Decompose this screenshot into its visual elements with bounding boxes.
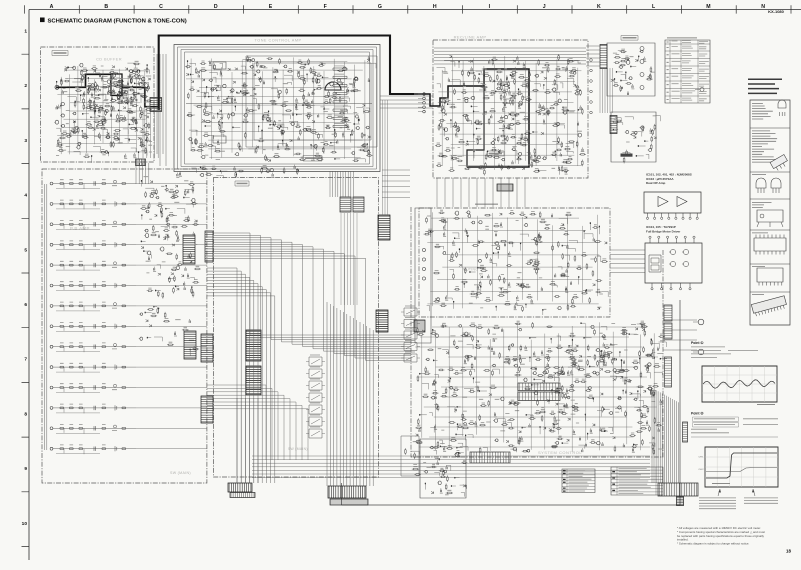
- parts usage table: [665, 40, 710, 103]
- CD buffer component cluster: [57, 63, 151, 157]
- svg-text:Full Bridge Motor Driver: Full Bridge Motor Driver: [646, 229, 681, 233]
- rec/line inner label box: [487, 151, 504, 156]
- rec select label box: [621, 154, 633, 157]
- svg-text:* Schematic diagram is subjec: * Schematic diagram is subject to change…: [677, 542, 750, 546]
- svg-text:F: F: [324, 4, 327, 10]
- wires rec/line to tape pb: [586, 46, 600, 66]
- extra CD buffer dark cluster: [83, 77, 151, 113]
- bold signal trace into rec/line amp: [414, 69, 529, 167]
- rec/line wiring rails: [438, 56, 582, 170]
- connector CN301: [246, 330, 261, 361]
- wires tone right edge down: [383, 100, 388, 215]
- system control dense sub-cluster: [541, 345, 659, 415]
- svg-text:Point ①: Point ①: [691, 341, 703, 345]
- pin panel small-signal transistor package: [770, 155, 789, 173]
- connector CN202: [184, 331, 196, 359]
- bold signal trace across page top: [159, 36, 414, 111]
- bold signal trace through CD buffer: [56, 74, 159, 106]
- tone control distinctive parts (pots, ladder): [325, 82, 341, 90]
- rec/line amp dashed border: [433, 40, 588, 178]
- svg-text:A: A: [50, 4, 54, 10]
- svg-text:be replaced with parts having: be replaced with parts having specificat…: [677, 534, 764, 538]
- pin panel SIP package: [751, 296, 787, 317]
- connector CN402: [378, 215, 390, 240]
- jack J3: [698, 349, 704, 355]
- svg-text:2: 2: [24, 83, 27, 89]
- legend table 1: [562, 469, 595, 493]
- svg-text:9: 9: [24, 466, 27, 472]
- pin panel TO-92 packages pair: [756, 178, 781, 188]
- power box component cluster: [425, 446, 468, 496]
- pin panel power package: [757, 210, 783, 222]
- connector CN205: [340, 197, 351, 212]
- connector CN603 muting top comb: [497, 184, 513, 191]
- connector CN603 sys control: [518, 392, 560, 401]
- connector CN501 hatch strip: [330, 499, 368, 505]
- bottom left wire bundle: [237, 398, 258, 483]
- connector CN611 right edge: [664, 323, 672, 339]
- connector CN601 bottom right: [658, 483, 698, 496]
- system control dash-dot border: [411, 207, 663, 457]
- motor driver U-IC104 pin diagram: [645, 243, 702, 283]
- rec/line right edge pins: [590, 59, 593, 114]
- connector CN604 sys control: [470, 452, 510, 463]
- pin panel TO-92 package small: [778, 100, 786, 108]
- svg-text:SW (MAIN): SW (MAIN): [288, 447, 308, 451]
- rec/line amp top rail bus: [434, 48, 586, 64]
- svg-text:18: 18: [786, 549, 791, 554]
- wire bundle CD buffer to tone box: [157, 54, 166, 166]
- svg-text:REC/LINE AMP: REC/LINE AMP: [454, 35, 487, 40]
- connector CN401: [376, 310, 388, 332]
- tape pb jack circles: [640, 47, 644, 90]
- bottom and right border: [342, 300, 681, 505]
- tone row components strip: [191, 167, 236, 178]
- rec out jack circles: [422, 248, 425, 280]
- system control wiring rails: [415, 322, 658, 452]
- switch block label box: [235, 181, 249, 186]
- rec select box: [611, 112, 656, 162]
- rec/line component cluster: [437, 61, 582, 175]
- connector CN207: [205, 231, 213, 262]
- svg-text:SW (MAIN): SW (MAIN): [170, 471, 191, 475]
- connector CN110 circles: [423, 93, 426, 113]
- svg-text:N: N: [761, 4, 765, 10]
- svg-text:C: C: [159, 4, 163, 10]
- CD buffer wiring rails: [57, 66, 147, 154]
- nested-L routing to bottom connectors: [207, 268, 275, 483]
- op-amp U-IC101 pin diagram: [644, 192, 701, 213]
- Point 1 caption lines: [691, 347, 758, 358]
- bold branch in rec/line amp: [467, 86, 484, 167]
- rec select component cluster: [613, 116, 660, 159]
- power sub box: [420, 439, 466, 498]
- connector CN201: [183, 235, 195, 264]
- mid lower cluster: [145, 307, 190, 356]
- pin panel DIP-14 package: [757, 268, 783, 282]
- tone control wiring rails: [186, 57, 365, 160]
- connector CN602 sys control: [518, 383, 560, 391]
- rec out jack box: [415, 208, 431, 343]
- tone control amp shield boxes: [174, 45, 380, 172]
- connector CN203: [201, 334, 213, 362]
- svg-text:SYSTEM CONTROL: SYSTEM CONTROL: [538, 450, 582, 455]
- left ruler line: [28, 10, 30, 561]
- svg-text:Point ②: Point ②: [691, 412, 703, 416]
- connector CN502 hatch strip: [230, 493, 255, 498]
- svg-text:1: 1: [24, 29, 27, 35]
- wires rec select down: [600, 68, 613, 113]
- oscilloscope waveform box 1: [702, 366, 777, 402]
- switch cell column B: [309, 357, 322, 438]
- legend table 2: [611, 467, 663, 495]
- muting block dash-dot border: [419, 208, 610, 317]
- connector CN102 below CD buffer: [136, 159, 146, 166]
- wire bus CN205 down to center bus: [341, 213, 357, 305]
- svg-text:H: H: [433, 4, 437, 10]
- tape pb component cluster: [615, 50, 639, 83]
- bottom routing lines: [252, 456, 650, 478]
- connector CN502 bottom left: [228, 483, 252, 492]
- oscilloscope waveform box 2: [705, 447, 778, 487]
- switch cell column C: [404, 308, 417, 362]
- muting box top label: [475, 204, 498, 205]
- pin panel DIP-16 package: [754, 238, 786, 251]
- pin connection diagram title: [748, 79, 782, 95]
- nested-L routing lower group: [207, 385, 308, 460]
- svg-text:6: 6: [24, 302, 27, 308]
- svg-text:CD BUFFER: CD BUFFER: [96, 57, 122, 62]
- svg-text:SCHEMATIC DIAGRAM (FUNCTION &: SCHEMATIC DIAGRAM (FUNCTION & TONE-CON): [48, 19, 187, 25]
- waveform annotations with arrows: [718, 489, 755, 496]
- svg-text:G: G: [378, 4, 382, 10]
- jack J2: [698, 319, 704, 325]
- jack J1: [700, 88, 704, 92]
- Point 2 caption lines: [693, 417, 739, 427]
- connector CN101: [150, 98, 162, 112]
- svg-text:KX-1080: KX-1080: [768, 9, 785, 14]
- top ruler line: [29, 9, 801, 11]
- switch block dash-dot border: [214, 178, 379, 478]
- pin panel text lists: [750, 100, 790, 325]
- wires muting to motor driver: [610, 250, 645, 273]
- tape pb label box: [621, 36, 638, 41]
- connector CN631: [610, 116, 617, 134]
- pb amp channel rows (jacks, R-C networks): [50, 182, 53, 450]
- wires tone bottom to system: [382, 170, 410, 198]
- svg-text:D: D: [214, 4, 218, 10]
- CD buffer block dashed border: [41, 47, 155, 162]
- small aux box: [401, 436, 419, 476]
- title block marker: [40, 18, 45, 23]
- left ruler tick marks: [22, 54, 30, 546]
- svg-text:4: 4: [24, 193, 27, 199]
- nested-L routing upper fan: [214, 233, 412, 360]
- top ruler tick marks: [25, 5, 791, 13]
- mid transistor cells cluster: [145, 188, 195, 269]
- center vertical wire bus: [327, 302, 373, 486]
- bottom right border connector: [677, 497, 684, 506]
- wire bus tone control to CN205: [330, 171, 353, 197]
- connector CN613 border hatch: [683, 422, 688, 442]
- wires system control to jacks: [663, 320, 697, 350]
- connector CN620: [414, 320, 425, 332]
- connector CN501 bottom: [328, 486, 366, 498]
- connector CN610 right edge: [664, 305, 672, 321]
- svg-text:TONE CONTROL AMP: TONE CONTROL AMP: [254, 39, 301, 43]
- svg-text:M: M: [706, 4, 710, 10]
- tone control component cluster: [188, 60, 376, 163]
- connector CN630: [600, 45, 607, 69]
- aux box cluster: [405, 441, 421, 476]
- wires tone to rec/line: [380, 96, 433, 108]
- muting component cluster: [444, 215, 595, 309]
- svg-text:B: B: [104, 4, 108, 10]
- svg-text:CH 1: CH 1: [699, 457, 705, 459]
- right dense vertical bus: [652, 388, 679, 483]
- tone control label box PHONES: [303, 156, 322, 162]
- pb amp outer dash-dot border: [42, 169, 207, 483]
- system control component cluster: [416, 323, 664, 454]
- svg-text:K: K: [597, 4, 601, 10]
- svg-text:8: 8: [24, 411, 27, 417]
- svg-text:P.B AMP: P.B AMP: [70, 226, 90, 231]
- wires CD buffer down to pb amp: [136, 163, 149, 184]
- muting wiring rails: [427, 212, 599, 309]
- tape pb block box: [607, 43, 655, 96]
- svg-text:Dual OP-Amp: Dual OP-Amp: [646, 181, 666, 185]
- svg-text:10: 10: [22, 521, 28, 527]
- wires rec/line to muting: [437, 178, 525, 207]
- connector CN206: [353, 197, 364, 212]
- connector CN612 right edge: [665, 357, 672, 387]
- svg-text:5: 5: [24, 247, 27, 253]
- svg-text:7: 7: [24, 357, 27, 363]
- connector CN302: [246, 366, 261, 395]
- pb amp left rail vertical: [45, 184, 47, 450]
- svg-text:E: E: [269, 4, 273, 10]
- svg-text:3: 3: [24, 138, 27, 144]
- CD buffer label box: [52, 51, 68, 56]
- wire bundle CD buffer right down: [143, 108, 158, 158]
- connector CN204: [201, 396, 213, 423]
- svg-text:J: J: [543, 4, 546, 10]
- svg-text:CH 2: CH 2: [699, 469, 705, 471]
- rec/line loop interior dark cluster: [496, 80, 528, 156]
